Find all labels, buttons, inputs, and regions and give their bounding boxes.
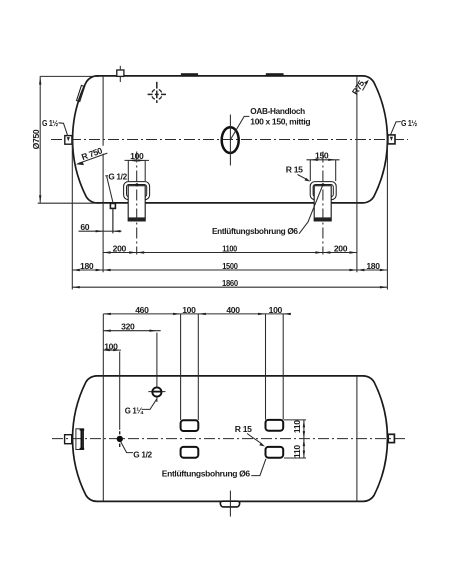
svg-text:1100: 1100	[222, 244, 237, 254]
svg-text:180: 180	[366, 261, 380, 271]
svg-text:180: 180	[80, 261, 94, 271]
horizontal centerline	[51, 139, 408, 141]
slot 1 upper	[181, 420, 199, 431]
plan centerline	[52, 438, 406, 440]
left foot centerline	[136, 152, 138, 255]
svg-text:G 1/2: G 1/2	[133, 450, 152, 460]
dim row 200/1100/200	[103, 244, 357, 254]
left foot vent hole	[136, 183, 139, 186]
dim row 180/1500/180	[72, 140, 387, 290]
G 1/2 bottom fitting	[105, 172, 127, 233]
bottom drain plug	[220, 491, 239, 517]
handhole leader	[231, 116, 250, 139]
svg-text:1860: 1860	[222, 278, 238, 288]
plan dim row 2: 320	[103, 322, 160, 332]
left tangent line	[102, 76, 104, 272]
handhole ellipse	[222, 127, 239, 153]
right foot	[310, 152, 336, 255]
right foot base plate	[314, 217, 331, 221]
right foot leg	[314, 186, 331, 221]
right foot centerline	[322, 152, 324, 255]
vent hole label plan	[162, 459, 266, 479]
foot dim 150 (right)	[307, 151, 340, 181]
R 750 label	[76, 145, 108, 165]
slot 1 lower	[181, 447, 199, 458]
svg-text:100: 100	[130, 151, 144, 161]
weld seam tick on left head	[77, 85, 85, 101]
svg-text:1500: 1500	[222, 261, 238, 271]
G 1 1/4 boss symbol	[125, 333, 166, 416]
handhole vertical centerline	[229, 115, 231, 166]
svg-text:320: 320	[121, 322, 135, 332]
svg-text:100 x 150, mittig: 100 x 150, mittig	[250, 117, 310, 127]
svg-text:G 1¼: G 1¼	[125, 405, 144, 415]
svg-text:Ø750: Ø750	[31, 129, 41, 149]
svg-text:Entlüftungsbohrung Ø6: Entlüftungsbohrung Ø6	[212, 226, 298, 236]
right foot strap bracket	[310, 182, 336, 200]
svg-text:R 15: R 15	[286, 165, 303, 175]
diameter 750 dimension	[31, 76, 100, 203]
left end fitting plan	[65, 429, 85, 450]
svg-text:100: 100	[269, 305, 283, 315]
plan dim row 1: 460/100/400/100	[103, 305, 291, 420]
right tangent line plan	[356, 376, 358, 502]
right foot vent hole	[322, 183, 325, 186]
svg-text:G 1½: G 1½	[42, 118, 58, 128]
G 1/2 drain point	[117, 352, 153, 460]
tank shell outline side view	[73, 76, 388, 203]
tank shell outline plan view	[73, 376, 388, 502]
slot 2 upper	[266, 420, 284, 431]
svg-text:200: 200	[334, 244, 348, 254]
left foot leg	[128, 186, 145, 221]
right tangent line	[356, 76, 358, 272]
dim 60	[79, 210, 122, 234]
top nozzle G	[117, 66, 124, 82]
svg-text:G 1½: G 1½	[401, 118, 417, 128]
svg-text:OAB-Handloch: OAB-Handloch	[250, 106, 305, 116]
svg-text:100: 100	[182, 305, 196, 315]
left foot base plate	[128, 217, 145, 221]
svg-text:R 15: R 15	[235, 424, 252, 434]
plan dim row 3: 100	[103, 342, 121, 352]
R75 label	[350, 78, 369, 96]
svg-text:150: 150	[315, 151, 329, 161]
right end fitting plan	[388, 434, 394, 442]
svg-text:400: 400	[226, 305, 240, 315]
R 15 label plan	[235, 424, 265, 447]
svg-text:100: 100	[104, 342, 118, 352]
foot dim 100 (left)	[125, 151, 150, 181]
R 15 label	[286, 165, 311, 182]
left nozzle G 1.5	[42, 118, 72, 144]
left foot strap bracket	[124, 182, 150, 200]
left tangent line plan	[102, 376, 104, 502]
dim row 1860	[72, 278, 387, 288]
left foot	[124, 152, 150, 255]
svg-text:G 1/2: G 1/2	[108, 172, 127, 182]
svg-text:110: 110	[292, 445, 302, 458]
dim 110/110 vertical	[284, 420, 306, 458]
center mark symbol	[148, 82, 166, 103]
slot 2 lower	[266, 447, 284, 458]
svg-text:200: 200	[113, 244, 127, 254]
right nozzle G 1.5	[388, 118, 417, 144]
svg-text:60: 60	[80, 222, 89, 232]
svg-text:460: 460	[135, 305, 149, 315]
svg-text:Entlüftungsbohrung Ø6: Entlüftungsbohrung Ø6	[162, 468, 251, 478]
top pad 1	[181, 73, 198, 76]
vent hole label (side)	[212, 186, 322, 236]
svg-text:110: 110	[292, 420, 302, 433]
top pad 2	[266, 73, 284, 76]
